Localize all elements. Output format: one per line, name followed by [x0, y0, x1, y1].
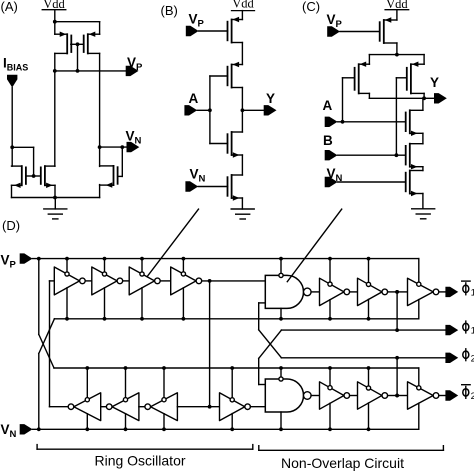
wire ring-b1 VN tap [86, 414, 88, 430]
phi1-1 top bubble [328, 282, 332, 286]
nmos T4 channel [231, 175, 233, 198]
svg-text:1: 1 [471, 288, 474, 299]
nmos M5 gate bar [117, 167, 119, 184]
wire phi2 output [439, 395, 446, 397]
node phi1 tap junction [395, 290, 399, 294]
node phi1-2 top tap junction [367, 257, 371, 261]
nmos U5 source arrow [411, 164, 418, 169]
nmos U4 drain arm [410, 109, 423, 111]
svg-text:1: 1 [471, 326, 474, 337]
nmos T4 gate bar [227, 177, 229, 196]
nand G2 VP bubble [279, 377, 283, 381]
nand G2 [265, 379, 303, 412]
node VP rail left junction [53, 69, 57, 73]
svg-text:(C): (C) [302, 0, 320, 14]
nmos M3 source arrow [14, 183, 21, 188]
terminal VP input [20, 253, 33, 263]
ground symbol [412, 208, 435, 210]
buf-b4 VP bubble [230, 398, 234, 402]
ring-4 VP bubble [181, 272, 185, 276]
wire VP to U1 gate [340, 31, 380, 33]
nmos M4 gate bar [40, 167, 42, 184]
pmos U1 channel [383, 20, 385, 43]
ground symbol [231, 208, 254, 210]
phi1-2 top bubble [366, 282, 370, 286]
node ring-2 VP tap junction [103, 257, 107, 261]
nmos M4 channel [44, 166, 46, 185]
wire phi2-3 bottom tap [418, 403, 420, 429]
node phi2-2 top tap junction [367, 366, 371, 370]
nmos U4 channel [409, 110, 411, 133]
nmos M3 gate bar [25, 167, 27, 184]
wire IBIAS lead [11, 88, 13, 167]
wire ring-4 VN tap [182, 288, 184, 319]
nmos U4 source arm [410, 132, 423, 134]
wire ring inverter 2 input [85, 280, 92, 282]
inverter ring-3 [129, 267, 154, 295]
wire M3 M4 gate link [26, 175, 40, 177]
nand G1 [265, 275, 303, 308]
nmos M5 source arrow [106, 182, 113, 187]
node ring tap junction [208, 279, 212, 283]
svg-text:B: B [323, 133, 333, 148]
node G1 VP tap junction [279, 257, 283, 261]
nmos M3 source arm [12, 184, 22, 186]
terminal VN input [185, 181, 198, 191]
svg-text:2: 2 [471, 391, 474, 402]
inverter phi1-2 [358, 278, 383, 305]
nmos T3 gate bar [227, 134, 229, 153]
terminal Y output [264, 105, 277, 115]
pmos U2 gate bar [354, 68, 356, 90]
phi2-3 top bubble [417, 386, 421, 390]
ring-b1 VP bubble [85, 398, 89, 402]
wire Vdd lead [396, 10, 398, 20]
wire B riser to U3 gate [395, 78, 397, 155]
pmos U3 source arm [411, 63, 424, 65]
callout line to nand detail C [287, 209, 341, 282]
wire phi2 line [281, 357, 446, 359]
wire VN crossover diagonal [39, 319, 55, 354]
node A junction [208, 108, 212, 112]
inverter phi1-3 [408, 278, 434, 305]
node buf-b4 VP tap junction [230, 366, 234, 370]
phi1-3 top bubble [417, 282, 421, 286]
wire phi2-3 top tap [418, 368, 420, 386]
nmos T4 source arrow [233, 195, 240, 200]
ground symbol [44, 208, 67, 210]
terminal IBIAS input [7, 75, 17, 88]
pmos M1 channel [66, 34, 68, 53]
wire T1 drain to T2 source [241, 43, 243, 65]
wire ring-b2 input [139, 406, 145, 408]
svg-text:(A): (A) [1, 0, 18, 14]
wire top rail [55, 21, 100, 23]
pmos M2 gate bar [83, 36, 85, 53]
node ring-b1 VN tap junction [85, 427, 89, 431]
wire Y output [242, 109, 266, 111]
node VN junction [98, 145, 102, 149]
wire T2 drain to T3 drain (Y lead) [241, 88, 243, 133]
terminal VN input [325, 177, 338, 187]
wire buf-b4 output to NAND [250, 406, 265, 408]
node VP rail gate junction [76, 69, 80, 73]
pmos T1 channel [231, 20, 233, 43]
wire phi2-2 bottom tap [368, 403, 370, 429]
wire T3 source to T4 drain [241, 155, 243, 175]
wire U6 source to ground [422, 194, 424, 209]
wire Vdd to rail [54, 10, 56, 22]
nmos U5 channel [409, 144, 411, 167]
pmos M2 source arm [88, 33, 100, 35]
nand G1 output bubble [304, 288, 312, 296]
inverter ring-b1 [74, 393, 101, 421]
inverter phi2-1 [320, 382, 345, 409]
node phi1-1 bottom tap junction [328, 317, 332, 321]
wire VP rail [55, 70, 126, 72]
nmos M3 drain arm [12, 165, 22, 167]
wire G1 VP tap [280, 259, 282, 274]
svg-text:Y: Y [266, 91, 275, 106]
nmos M5 channel [113, 166, 115, 185]
node ring-b1 VP tap junction [85, 366, 89, 370]
pmos T2 drain arm [232, 87, 243, 89]
wire G2 upper input riser [258, 358, 260, 384]
nmos M4 source arrow [46, 183, 53, 188]
inverter ring-1 output bubble [80, 278, 86, 284]
node ring-2 VN tap junction [103, 317, 107, 321]
label phi2-bar [465, 387, 467, 399]
inverter ring-2 output bubble [117, 278, 123, 284]
wire ring-3 VN tap [141, 288, 143, 319]
wire ring-b3 VN tap [163, 414, 165, 430]
node B junction [395, 153, 399, 157]
wire U3 drain to Y [423, 93, 425, 98]
wire A riser down to T3 gate [209, 110, 211, 143]
svg-text:A: A [323, 98, 333, 113]
pmos T1 source arrow [233, 17, 240, 22]
callout line to inverter detail B [147, 209, 198, 277]
nmos U6 gate bar [405, 173, 407, 192]
pmos U3 source arrow [412, 62, 419, 67]
ring-3 VP bubble [140, 272, 144, 276]
wire VN to U6 gate [338, 181, 406, 183]
inverter ring-b1 output bubble [68, 404, 74, 410]
inverter buf-b4 output bubble [245, 404, 251, 410]
terminal A input [184, 105, 197, 115]
inverter ring-3 output bubble [155, 278, 161, 284]
wire ring-b1 VP tap [86, 368, 88, 398]
svg-text:Non-Overlap Circuit: Non-Overlap Circuit [281, 455, 404, 471]
wire phi1 line [281, 329, 446, 331]
node ring-b3 VP tap junction [162, 366, 166, 370]
pmos U1 gate bar [379, 22, 381, 41]
wire phi2-1 bottom tap [329, 403, 331, 429]
wire G1 VN tap [280, 308, 282, 318]
wire ring-b3 input from tap [177, 406, 219, 408]
node phi2 chain junction [395, 394, 399, 398]
node ring-b2 VP tap junction [124, 366, 128, 370]
nmos T3 channel [231, 132, 233, 155]
pmos U1 source arrow [385, 17, 392, 22]
wire ring-4 VP tap [182, 259, 184, 272]
wire ring-b2 VN tap [125, 414, 127, 430]
wire A to U4 gate [338, 121, 406, 123]
nmos U6 channel [409, 171, 411, 194]
pmos T1 gate bar [227, 22, 229, 41]
ring-2 VP bubble [102, 272, 106, 276]
wire phi1 inverter 3 input [388, 291, 398, 293]
pmos M2 channel [87, 34, 89, 53]
label phi2 [465, 349, 467, 361]
node phi1-1 top tap junction [328, 257, 332, 261]
wire ring-b2 VP tap [125, 368, 127, 398]
node A junction [341, 120, 345, 124]
nmos U5 drain arm [410, 143, 423, 145]
pmos U1 drain arm [384, 42, 397, 44]
phi2-1 top bubble [328, 386, 332, 390]
nmos T3 drain arm [232, 131, 243, 133]
wire A to gate riser [197, 109, 210, 111]
pmos M1 source arrow [60, 32, 67, 37]
pmos U2 drain arm [359, 92, 370, 94]
nmos U4 source arrow [411, 131, 418, 136]
terminal phi1-bar output [445, 287, 458, 297]
wire phi1-2 top tap [368, 259, 370, 283]
terminal VP output [126, 66, 139, 76]
wire ring-1 VP tap [66, 259, 68, 272]
pmos U3 source lead [423, 55, 425, 65]
wire right lead down [99, 22, 101, 35]
node ground junction [53, 196, 57, 200]
nmos U5 source arm [410, 166, 423, 168]
node ring-4 VP tap junction [182, 257, 186, 261]
terminal VN output [127, 142, 140, 152]
node ring-b3 VN tap junction [162, 427, 166, 431]
nmos T4 drain arm [232, 174, 243, 176]
wire ring-2 VN tap [104, 288, 106, 319]
pmos T2 gate bar [227, 67, 229, 86]
node phi2-1 top tap junction [328, 366, 332, 370]
pmos T2 channel [231, 65, 233, 88]
wire VP crossover drop [38, 259, 40, 335]
pmos U2 source lead [368, 55, 370, 65]
pmos U3 gate bar [406, 68, 408, 90]
wire phi2 inverter 1 input [311, 395, 319, 397]
wire phi1-3 bottom tap [418, 300, 420, 319]
wire ring feedback horizontal [50, 406, 69, 408]
wire upper middle rail VN [54, 318, 418, 320]
node phi1 line junction [395, 328, 399, 332]
wire VN node [100, 146, 127, 148]
wire G1 lower input stub [259, 302, 266, 304]
inverter ring-4 output bubble [196, 278, 202, 284]
pmos T2 source arrow [233, 62, 240, 67]
svg-text:Vdd: Vdd [232, 0, 254, 11]
terminal phi1 output [445, 325, 458, 335]
inverter buf-b4 [220, 393, 245, 421]
node split junction [395, 53, 399, 57]
wire crossover G1-to-phi2 diagonal [259, 330, 282, 358]
wire phi1 inverter 1 input [311, 291, 319, 293]
wire phi1-1 top tap [329, 259, 331, 282]
wire VN to T4 gate [198, 186, 227, 188]
wire ring inverter 4 output to NAND [202, 280, 266, 282]
terminal phi2-bar output [445, 390, 458, 400]
wire M4 source down [54, 185, 56, 197]
pmos T1 source arm [232, 19, 243, 21]
nmos M4 drain arm [45, 165, 55, 167]
svg-text:(B): (B) [161, 3, 178, 18]
terminal phi2 output [445, 353, 458, 363]
wire VP crossover diagonal [39, 334, 54, 368]
wire ring inverter 3 input [123, 280, 130, 282]
wire M3 source down [11, 185, 13, 197]
wire buf-b4 VP tap [231, 368, 233, 398]
node VP crossover tap [37, 257, 41, 261]
wire phi2 inverter 2 input [350, 395, 358, 397]
node M3 M4 gate junction [32, 174, 36, 178]
wire crossover G2-to-phi1 diagonal [259, 330, 282, 358]
wire VN crossover riser [38, 354, 40, 430]
inverter ring-b3 [151, 393, 178, 421]
node phi1 chain junction [395, 290, 399, 294]
node ring-b2 VN tap junction [124, 427, 128, 431]
wire ring-2 VP tap [104, 259, 106, 272]
node Y junction [241, 108, 245, 112]
wire U5 source to U6 drain [422, 167, 424, 171]
wire ring-b1 input [101, 406, 107, 408]
pmos U1 source arm [384, 19, 397, 21]
nmos M5 drain arm [100, 165, 114, 167]
wire M1 M2 gate link [71, 43, 84, 45]
svg-text:Ring Oscillator: Ring Oscillator [94, 453, 185, 469]
wire phi2 tap from bottom chain [396, 358, 398, 396]
nmos T4 source arm [232, 197, 243, 199]
inverter phi2-1 output bubble [344, 393, 350, 399]
terminal VP input [327, 26, 340, 36]
wire ring-3 VP tap [141, 259, 143, 272]
pmos T2 source arm [232, 64, 243, 66]
wire ring feedback vertical [49, 281, 51, 407]
ring-b2 VP bubble [123, 398, 127, 402]
node G1 VN tap junction [279, 317, 283, 321]
node phi2 tap junction [395, 394, 399, 398]
wire phi1-2 bottom tap [368, 299, 370, 318]
wire VP to T1 gate [199, 30, 228, 32]
inverter ring-b2 output bubble [106, 404, 112, 410]
wire VN to M5 gate [121, 147, 123, 176]
node ring-3 VP tap junction [140, 257, 144, 261]
node ring bottom tap junction [208, 405, 212, 409]
pmos M2 source arrow [89, 32, 96, 37]
pmos U3 channel [410, 64, 412, 93]
brace non-overlap circuit [259, 449, 444, 451]
terminal VP input [186, 26, 199, 36]
wire ring inverter 1 input [50, 280, 55, 282]
node Y junction [422, 96, 426, 100]
node phi2-1 bottom tap junction [328, 427, 332, 431]
inverter phi1-1 output bubble [344, 289, 350, 295]
wire split rail [369, 54, 424, 56]
nmos M3 channel [21, 166, 23, 185]
wire phi2 inverter 3 input [388, 395, 398, 397]
wire ring tap down to bottom row [209, 281, 211, 407]
pmos M2 drain arm [88, 52, 100, 54]
wire U1 drain down [396, 43, 398, 55]
pmos T1 drain arm [232, 42, 243, 44]
terminal A input [325, 117, 338, 127]
inverter ring-4 [171, 267, 196, 295]
inverter phi2-3 [408, 382, 434, 409]
nand G1 VP bubble [279, 273, 283, 277]
svg-text:2: 2 [471, 353, 474, 364]
inverter phi2-2 output bubble [382, 393, 388, 399]
pmos M1 source arm [55, 33, 67, 35]
brace ring oscillator [37, 448, 253, 450]
svg-text:Y: Y [430, 75, 439, 90]
inverter phi2-2 [358, 382, 383, 409]
wire A riser to U2 gate [342, 78, 344, 122]
node VN gate tap [120, 145, 124, 149]
pmos U2 channel [358, 64, 360, 93]
wire Y down to U4 drain [422, 98, 424, 110]
pmos U3 drain arm [411, 92, 424, 94]
wire phi1 inverter 2 input [350, 291, 358, 293]
node ring-3 VN tap junction [140, 317, 144, 321]
nmos U5 gate bar [405, 146, 407, 165]
wire B to U5 gate [338, 154, 406, 156]
nand G2 output bubble [304, 392, 312, 400]
nmos U6 source arm [410, 193, 423, 195]
wire phi1 output [439, 291, 446, 293]
nmos M5 source arm [100, 184, 114, 186]
wire ring-b3 VP tap [163, 368, 165, 398]
inverter ring-b3 output bubble [145, 404, 151, 410]
wire phi1-3 top tap [418, 259, 420, 283]
nmos U6 source arrow [411, 191, 418, 196]
node ring-4 VN tap junction [182, 317, 186, 321]
wire T4 source to ground [241, 198, 243, 209]
wire gate link to VP rail [77, 44, 79, 71]
node phi2 line junction [395, 356, 399, 360]
wire M1 drain down [54, 53, 56, 166]
wire IBIAS to gates [12, 146, 33, 148]
inverter phi1-2 output bubble [382, 289, 388, 295]
label phi1 [465, 321, 467, 333]
nmos T3 source arrow [233, 152, 240, 157]
node phi1-2 bottom tap junction [367, 317, 371, 321]
node G2 VN tap junction [279, 427, 283, 431]
node G2 VP tap junction [279, 366, 283, 370]
ground stem [54, 198, 56, 209]
wire Vdd lead [241, 11, 243, 20]
pmos U2 source arm [359, 63, 370, 65]
phi2-2 top bubble [366, 386, 370, 390]
node phi2-2 bottom tap junction [367, 427, 371, 431]
pmos M1 drain arm [55, 52, 67, 54]
inverter ring-1 [54, 267, 79, 295]
ring-b3 VP bubble [162, 398, 166, 402]
inverter phi1-3 output bubble [433, 289, 439, 295]
inverter phi2-3 output bubble [433, 393, 439, 399]
inverter ring-2 [92, 267, 117, 295]
wire phi2-2 top tap [368, 368, 370, 386]
pmos M1 gate bar [70, 36, 72, 53]
wire G1 lower input drop [258, 303, 260, 330]
wire U4 source to U5 drain [422, 133, 424, 143]
inverter phi1-1 [320, 278, 345, 305]
